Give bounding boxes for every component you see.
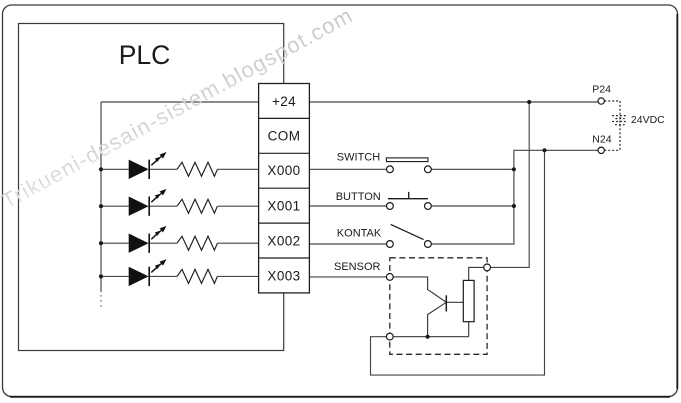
svg-text:BUTTON: BUTTON xyxy=(336,191,381,203)
svg-text:COM: COM xyxy=(268,129,301,144)
svg-text:X001: X001 xyxy=(267,198,300,213)
svg-text:N24: N24 xyxy=(592,134,611,146)
svg-text:24VDC: 24VDC xyxy=(631,114,665,126)
svg-text:X000: X000 xyxy=(267,163,300,178)
svg-text:P24: P24 xyxy=(592,83,611,95)
svg-text:KONTAK: KONTAK xyxy=(337,228,382,240)
svg-text:X002: X002 xyxy=(267,234,300,249)
svg-text:PLC: PLC xyxy=(119,40,171,70)
svg-text:X003: X003 xyxy=(267,269,300,284)
svg-text:SWITCH: SWITCH xyxy=(337,152,380,164)
svg-text:SENSOR: SENSOR xyxy=(334,261,381,273)
svg-text:+24: +24 xyxy=(272,94,296,109)
